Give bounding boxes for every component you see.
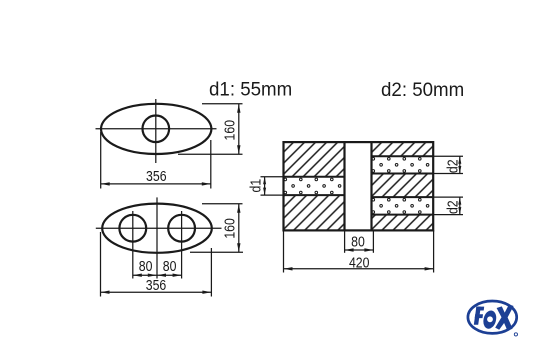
bottom oval dim 356 extension line left: [100, 232, 102, 297]
FOX logo registered trademark symbol: [514, 333, 517, 336]
bottom oval dim 160 extension line top: [202, 203, 243, 205]
top oval horizontal centerline: [96, 128, 217, 130]
FOX logo letter F stem: [474, 307, 481, 325]
dim 80 chamber extension line left: [344, 230, 346, 252]
top oval dim 160 extension line bottom: [178, 153, 243, 155]
svg-text:d1: 55mm: d1: 55mm: [209, 79, 292, 100]
FOX logo letter X: [495, 304, 513, 330]
chamber right wall: [370, 142, 372, 230]
dim d1 extension line bottom: [261, 194, 284, 196]
FOX logo letter F top bar: [476, 307, 484, 311]
bottom oval dim 80 right dimension line: [157, 274, 182, 276]
dim d2 bottom extension lines: [433, 196, 463, 198]
top oval dim 160 dimension line: [238, 104, 240, 155]
top oval pipe hole circle: [143, 116, 170, 143]
top oval dim 356 extension line left: [100, 132, 102, 189]
dim d1 dimension line: [264, 177, 266, 195]
bottom oval dim 356 extension line right: [210, 248, 212, 297]
chamber left wall: [343, 142, 345, 230]
FOX logo letter F middle bar: [475, 314, 483, 318]
svg-text:80: 80: [163, 258, 177, 274]
svg-text:d2: d2: [444, 200, 460, 214]
svg-text:356: 356: [146, 168, 167, 184]
dim d2 top dimension line: [459, 156, 461, 173]
svg-text:160: 160: [222, 120, 238, 141]
dim 420 dimension line: [284, 268, 434, 270]
bottom oval dim 80 left dimension line: [133, 274, 157, 276]
svg-text:80: 80: [139, 258, 153, 274]
dim d2 bottom dimension line: [459, 197, 461, 215]
bottom oval body outline: [102, 204, 212, 253]
bottom oval right circle centerline: [181, 211, 183, 279]
bottom oval left circle centerline: [132, 211, 134, 279]
top oval body outline: [101, 104, 211, 154]
muffler body hatched right block: [372, 142, 434, 230]
bottom oval dim 160 dimension line: [238, 204, 240, 253]
dim 420 extension line left: [283, 230, 285, 272]
dim 420 extension line right: [433, 230, 435, 272]
bottom oval dim 356 dimension line: [101, 291, 212, 293]
dim d1 extension line top: [261, 176, 284, 178]
muffler body hatched left block: [284, 142, 345, 230]
svg-text:d2: 50mm: d2: 50mm: [381, 80, 464, 101]
svg-text:160: 160: [222, 218, 238, 239]
svg-text:420: 420: [349, 254, 370, 270]
top oval dim 356 extension line right: [210, 140, 212, 189]
svg-text:356: 356: [146, 277, 167, 293]
muffler body outer rectangle: [284, 142, 434, 230]
svg-text:d1: d1: [247, 179, 263, 193]
top oval vertical centerline: [155, 99, 157, 163]
FOX logo ellipse: [468, 301, 517, 333]
bottom oval horizontal centerline: [96, 227, 222, 229]
dim 80 chamber dimension line: [345, 249, 374, 251]
svg-text:d2: d2: [444, 159, 460, 173]
bottom oval vertical centerline: [156, 197, 158, 278]
top oval dim 356 dimension line: [101, 183, 211, 185]
bottom oval left pipe hole circle: [119, 215, 146, 242]
top oval dim 160 extension line top: [202, 103, 243, 105]
FOX logo letter O: [482, 309, 499, 330]
svg-text:80: 80: [351, 233, 365, 249]
bottom oval dim 160 extension line bottom: [190, 251, 243, 253]
dim d2 top extension lines: [433, 155, 463, 157]
dim 80 chamber extension line right: [372, 230, 374, 252]
bottom oval right pipe hole circle: [168, 215, 195, 242]
